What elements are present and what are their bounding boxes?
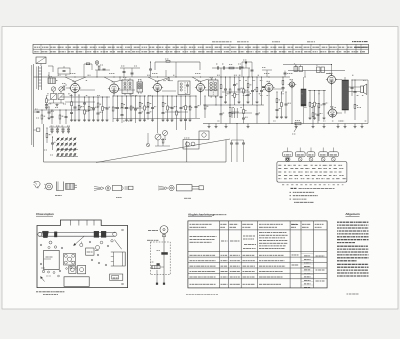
IF can top view 2 xyxy=(78,265,86,273)
title block text xyxy=(34,46,40,48)
chassis hole A xyxy=(49,241,52,244)
left line capacitor C5 xyxy=(34,109,40,113)
header note left xyxy=(212,41,232,43)
svg-text:Abgleichanleitung: Abgleichanleitung xyxy=(188,213,214,217)
mains capacitor C40 xyxy=(230,140,233,162)
screen network of V1 xyxy=(83,96,89,121)
mounting screws xyxy=(40,229,123,285)
junction dots xyxy=(74,76,75,77)
terminal 2 xyxy=(163,283,165,285)
socket symbol 1 xyxy=(285,157,290,162)
wire xyxy=(352,79,368,81)
tube V4 xyxy=(195,81,206,92)
IF can top view 1 xyxy=(69,266,76,273)
wire xyxy=(308,90,326,92)
resistor R14 xyxy=(46,127,51,143)
tube V3 xyxy=(152,81,163,92)
wire xyxy=(220,68,222,77)
resistor R20 xyxy=(165,59,170,62)
socket symbol 2 xyxy=(298,157,302,161)
wire xyxy=(163,238,165,284)
title block xyxy=(33,44,369,53)
wire xyxy=(331,65,333,76)
dial rail xyxy=(38,232,117,236)
HT fuse Si2 xyxy=(292,121,301,135)
speaker frame bracket xyxy=(111,252,125,266)
wire xyxy=(291,87,293,124)
tube type labels xyxy=(70,73,333,75)
wires to voltage chart xyxy=(288,148,334,152)
tube V7 xyxy=(327,107,338,118)
wire xyxy=(96,70,98,77)
wire xyxy=(74,93,76,96)
wire xyxy=(130,94,132,97)
coil box T5 xyxy=(178,81,190,95)
diagonal wire to V1 xyxy=(65,77,75,82)
wire xyxy=(175,62,177,77)
pointer line 2 xyxy=(111,240,122,250)
alignment table grid xyxy=(188,221,327,288)
terminal 1 xyxy=(156,283,158,285)
wire xyxy=(53,91,55,93)
wire xyxy=(295,65,297,72)
lamp eyelet sketch xyxy=(106,186,111,191)
voltage chart tab ECH81 xyxy=(295,152,305,157)
wire xyxy=(304,71,306,78)
wire xyxy=(155,145,170,147)
knob circle xyxy=(80,242,83,247)
AVC rail components xyxy=(51,109,54,124)
filter choke Dr1 xyxy=(301,77,306,124)
voltage chart note c xyxy=(290,198,307,200)
voltage chart note line 1 xyxy=(291,187,335,189)
lamp holder xyxy=(157,250,168,254)
trimmer C2 xyxy=(51,94,57,100)
IF transformer T1 xyxy=(122,78,133,96)
connector box xyxy=(110,274,123,280)
wire xyxy=(48,72,50,77)
diagonal wire to V4 xyxy=(192,77,201,82)
wire xyxy=(156,270,158,284)
wire xyxy=(212,67,250,69)
variable capacitor C1a xyxy=(51,87,55,91)
ratio detector chain xyxy=(149,61,152,77)
tube V8 xyxy=(288,80,296,89)
wire xyxy=(349,86,361,88)
coupling caps top xyxy=(216,61,247,70)
alignment table caption xyxy=(186,293,218,295)
resistor R40 xyxy=(162,139,164,146)
wire xyxy=(155,61,200,63)
wire xyxy=(148,95,196,97)
variable capacitor C1b xyxy=(59,87,63,91)
wire xyxy=(165,70,167,77)
detector network xyxy=(195,95,201,118)
tube V2 xyxy=(108,82,120,94)
coupling to V5 xyxy=(262,87,265,88)
plug body sketch xyxy=(177,185,193,191)
component box xyxy=(86,248,99,255)
wire xyxy=(43,124,45,162)
trimmer C3 xyxy=(58,94,64,100)
dial lamp diagram label 1 xyxy=(148,230,158,232)
electrolytic C33 xyxy=(321,67,325,73)
header note 2 xyxy=(237,41,249,43)
phase splitter network xyxy=(309,90,314,120)
voltage chart tab ECC85 xyxy=(283,152,293,157)
AVC divider xyxy=(220,104,225,123)
scattered value labels xyxy=(46,75,367,121)
dial pulley sketch xyxy=(44,183,52,190)
socket symbol 5 xyxy=(332,157,336,161)
wire xyxy=(96,139,230,163)
alignment table body text xyxy=(190,233,288,285)
band switch S1 xyxy=(56,137,78,156)
voltage chart note a xyxy=(290,191,315,193)
grounds under detector rail xyxy=(208,124,250,128)
header note 3 xyxy=(272,41,280,43)
wire xyxy=(211,77,213,80)
dial lamp diagram label 2 xyxy=(147,239,159,241)
wire xyxy=(283,64,332,66)
alignment table header text xyxy=(190,224,324,227)
wire xyxy=(154,62,156,70)
lamp housing (dashed) xyxy=(150,242,170,275)
diode D1 xyxy=(163,77,173,81)
tube V5 xyxy=(263,81,274,92)
IF transformer T3 xyxy=(209,78,219,98)
wire xyxy=(60,96,110,98)
wire xyxy=(53,100,55,104)
wire xyxy=(336,79,342,81)
wire xyxy=(186,141,188,162)
header logo cell xyxy=(354,46,367,48)
voltage chart table xyxy=(277,162,347,183)
wire xyxy=(44,161,227,163)
wire xyxy=(157,92,159,134)
electrolytic C30 xyxy=(294,63,298,72)
wire xyxy=(367,80,369,124)
svg-text:Allgemein: Allgemein xyxy=(345,212,360,216)
wire xyxy=(113,95,146,97)
scale lamp wiring xyxy=(146,133,149,147)
middle small parts xyxy=(66,262,77,270)
bracket sketch xyxy=(57,182,64,191)
plug eyelet sketch xyxy=(169,185,174,190)
chassis hole B xyxy=(54,246,56,248)
caption group 1 xyxy=(55,194,62,196)
caption group 3 xyxy=(184,197,191,199)
plug wires sketch xyxy=(158,186,168,190)
wire xyxy=(33,64,35,147)
oscillator coil chain xyxy=(45,96,51,109)
wire xyxy=(199,62,201,70)
tube V6 xyxy=(326,73,337,84)
wire xyxy=(215,96,217,105)
dial lamp symbol La2 xyxy=(160,226,168,238)
tuning capacitor top view xyxy=(64,254,76,266)
voltage chart tick labels xyxy=(282,184,344,186)
coil L2 xyxy=(48,77,56,84)
header note 4 xyxy=(307,41,315,43)
headphone jack J1 xyxy=(231,108,239,118)
mains capacitor C42 xyxy=(242,140,245,162)
wire xyxy=(113,118,200,120)
antenna input box xyxy=(36,57,46,64)
wire xyxy=(225,140,227,162)
wire xyxy=(31,65,33,145)
ferrite antenna L1 xyxy=(37,66,42,90)
header note right xyxy=(352,41,368,43)
IF transformer T2 xyxy=(137,80,143,94)
resistor R11 xyxy=(98,65,103,70)
wire xyxy=(119,77,121,80)
caption group 2 xyxy=(116,196,122,198)
lamp body sketch xyxy=(113,185,129,190)
diagonal wire to V2 xyxy=(104,77,114,82)
wire xyxy=(34,109,95,111)
coil core sketch xyxy=(66,184,78,190)
V5 grid chain xyxy=(282,76,285,92)
bottom rect cutout xyxy=(64,277,89,287)
voltage chart note d xyxy=(294,201,314,203)
grid resistor R8 xyxy=(62,84,71,91)
voltage chart rows xyxy=(278,165,346,179)
voltage chart tab EABC80 xyxy=(319,152,328,157)
AVC chain xyxy=(41,109,46,124)
page number xyxy=(347,293,359,295)
dial lamp La1 xyxy=(95,61,99,66)
electrolytic C32 xyxy=(316,64,320,72)
wire xyxy=(34,76,204,78)
dial knob spring sketch xyxy=(34,181,41,188)
notes title xyxy=(345,212,360,216)
decoupling row xyxy=(49,126,70,133)
dial drum right 1 xyxy=(94,231,99,237)
top band parts xyxy=(58,60,287,77)
dial drum small xyxy=(54,232,57,237)
capacitor C16 xyxy=(51,136,56,150)
pointer arrow 1 xyxy=(74,236,85,246)
dial drum right 2 xyxy=(101,231,106,237)
V7 grid network xyxy=(312,105,317,123)
wire xyxy=(331,84,333,110)
diagonal wire to V3 xyxy=(148,77,158,82)
electrolytic C31 xyxy=(299,65,303,72)
left line trimmer C6 xyxy=(34,128,40,131)
wire xyxy=(113,93,115,96)
ground xyxy=(56,104,59,107)
output transformer top view xyxy=(44,250,60,269)
mains capacitor C41 xyxy=(236,140,239,162)
wire xyxy=(48,65,53,67)
cathode network of V1 xyxy=(70,94,73,121)
loudspeaker LS1 xyxy=(361,84,367,95)
capacitor C11 xyxy=(95,69,110,70)
electrolytic top view xyxy=(96,241,103,249)
left bottom parts xyxy=(41,268,60,282)
left mid labels xyxy=(36,104,66,155)
voltage chart note b xyxy=(290,195,318,197)
tube V1 xyxy=(69,81,81,93)
dial drive drum xyxy=(42,231,48,237)
voltage selector xyxy=(199,131,209,140)
output transformer T4 xyxy=(342,77,349,114)
wire xyxy=(203,76,290,78)
dropper resistor assembly xyxy=(150,262,164,269)
wire xyxy=(268,92,270,124)
alignment table right columns xyxy=(292,225,325,288)
notes paragraph xyxy=(337,222,369,276)
grounds under HT rail xyxy=(295,124,364,128)
lamp tip sketch xyxy=(129,186,134,189)
wire xyxy=(232,139,244,141)
negative feedback chain xyxy=(351,79,354,96)
V5 networks xyxy=(276,91,282,118)
padder chain xyxy=(48,106,54,119)
wire xyxy=(203,104,264,106)
chassis hole C xyxy=(48,246,50,248)
fuse holder Si1 xyxy=(183,138,199,149)
svg-text:Chassisplan: Chassisplan xyxy=(36,212,54,216)
voltage chart tab EF89 xyxy=(307,152,315,157)
socket symbol 3 xyxy=(309,157,313,161)
socket symbol 4 xyxy=(321,157,325,161)
wire xyxy=(245,61,247,68)
volume pot P1 xyxy=(161,131,168,140)
wire xyxy=(288,70,345,72)
wire xyxy=(203,123,368,125)
voltage chart tab EL84 xyxy=(329,152,339,157)
wire xyxy=(248,68,250,77)
V2 bias network xyxy=(112,95,116,122)
wire xyxy=(200,92,202,106)
power switch S2 xyxy=(155,134,161,146)
V3 anode network xyxy=(147,95,153,120)
plug pin sketch xyxy=(192,186,204,190)
chassis plan title xyxy=(36,212,54,216)
lamp wires sketch xyxy=(94,187,104,191)
interstage wires xyxy=(65,89,284,113)
alignment table title xyxy=(188,213,227,217)
chassis caption xyxy=(36,292,65,295)
chassis outline xyxy=(37,220,128,288)
tone network xyxy=(354,79,359,120)
